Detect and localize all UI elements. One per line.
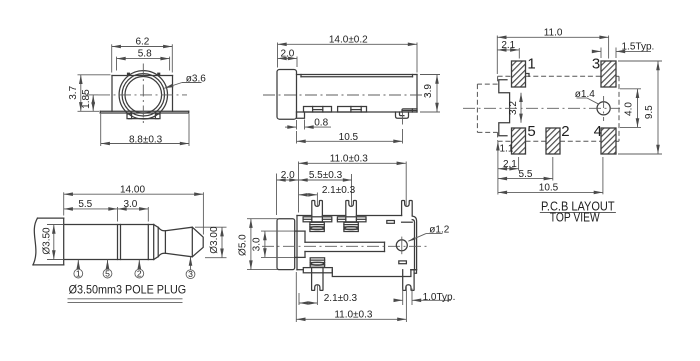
svg-text:3.0: 3.0 — [252, 237, 263, 251]
svg-text:2.1±0.3: 2.1±0.3 — [324, 293, 358, 304]
svg-text:14.00: 14.00 — [120, 184, 145, 195]
svg-text:2.0: 2.0 — [281, 170, 295, 181]
svg-text:5.8: 5.8 — [138, 49, 152, 60]
svg-text:3.2: 3.2 — [508, 101, 519, 115]
svg-text:1: 1 — [76, 269, 81, 279]
svg-text:1.0Typ.: 1.0Typ. — [423, 292, 456, 303]
svg-text:3.9: 3.9 — [423, 84, 434, 98]
svg-text:10.5: 10.5 — [339, 132, 359, 143]
svg-text:11.0±0.3: 11.0±0.3 — [330, 154, 369, 165]
svg-text:1: 1 — [527, 56, 535, 73]
svg-text:2.1±0.3: 2.1±0.3 — [322, 185, 356, 196]
svg-text:3.7: 3.7 — [68, 85, 79, 99]
svg-text:3: 3 — [188, 269, 193, 279]
svg-text:2: 2 — [561, 123, 569, 140]
svg-text:3: 3 — [592, 56, 600, 73]
svg-text:1.5Typ.: 1.5Typ. — [622, 42, 655, 53]
svg-text:TOP VIEW: TOP VIEW — [550, 211, 600, 225]
svg-text:6.2: 6.2 — [135, 36, 149, 47]
svg-text:2.0: 2.0 — [280, 49, 294, 60]
svg-text:9.5: 9.5 — [644, 105, 655, 119]
svg-text:2.1: 2.1 — [503, 159, 517, 170]
svg-text:5.5: 5.5 — [78, 199, 92, 210]
svg-text:1.85: 1.85 — [81, 89, 92, 109]
svg-text:11.0±0.3: 11.0±0.3 — [334, 310, 373, 321]
svg-text:5.5±0.3: 5.5±0.3 — [309, 170, 343, 181]
svg-text:11.0: 11.0 — [544, 28, 563, 39]
svg-text:5: 5 — [527, 123, 535, 140]
svg-text:2.1: 2.1 — [501, 40, 515, 51]
svg-text:Ø3.50: Ø3.50 — [42, 227, 53, 255]
svg-text:5.5: 5.5 — [519, 169, 533, 180]
svg-text:10.5: 10.5 — [539, 183, 559, 194]
svg-text:Ø3.50mm3 POLE PLUG: Ø3.50mm3 POLE PLUG — [69, 283, 187, 297]
svg-text:1.1: 1.1 — [500, 143, 514, 154]
svg-text:8.8±0.3: 8.8±0.3 — [129, 134, 163, 145]
svg-text:5: 5 — [105, 269, 110, 279]
svg-text:Ø5.0: Ø5.0 — [238, 234, 249, 256]
svg-text:0.8: 0.8 — [314, 117, 328, 128]
svg-text:14.0±0.2: 14.0±0.2 — [329, 35, 368, 46]
svg-text:3.0: 3.0 — [123, 199, 137, 210]
svg-text:Ø3.00: Ø3.00 — [209, 226, 220, 254]
svg-text:4: 4 — [594, 123, 602, 140]
svg-text:2: 2 — [137, 269, 142, 279]
svg-text:4.0: 4.0 — [623, 102, 634, 116]
